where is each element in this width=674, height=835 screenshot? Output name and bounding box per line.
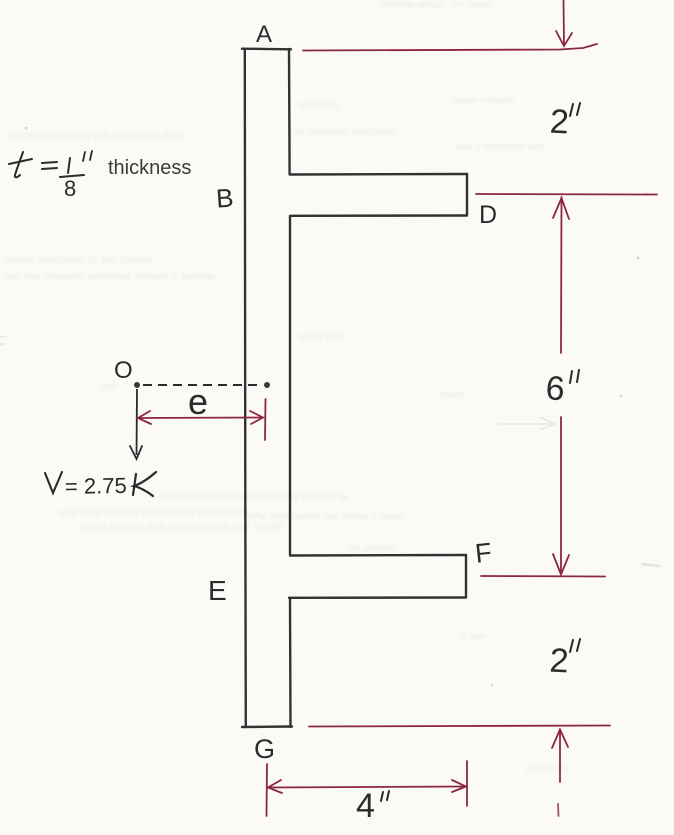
V force arrow line	[136, 389, 139, 455]
svg-text:mwnm wmmunm m wm mmnw: mwnm wmmunm m wm mmnw	[2, 254, 153, 266]
V force arrowhead	[130, 446, 142, 459]
svg-text:mm mw umwmm wmmmw mmnm n wmmw: mm mw umwmm wmmmw mmnm n wmmw	[2, 271, 215, 283]
top flange bottom edge	[291, 214, 467, 217]
e dimension line	[137, 417, 263, 420]
svg-text:.: .	[255, 499, 258, 511]
faint scan artifacts	[0, 127, 660, 687]
svg-text:4: 4	[356, 787, 375, 825]
V = 2.75 K handwriting	[45, 472, 62, 493]
4in dimension line	[268, 787, 467, 788]
svg-text:e: e	[188, 381, 208, 422]
dot on web	[264, 382, 270, 388]
svg-text:ww u wmmnm wm: ww u wmmnm wm	[454, 141, 545, 153]
svg-text:nww wm: nww wm	[300, 331, 342, 343]
top 2in arrow vertical	[563, 0, 566, 45]
bottom flange right edge	[465, 555, 467, 597]
red dimension set	[137, 0, 657, 816]
6in upper arrowhead	[553, 198, 569, 219]
D level extension line	[476, 193, 657, 196]
svg-text:A: A	[256, 21, 272, 48]
top extension line at y=49	[303, 44, 597, 51]
svg-text:F: F	[474, 537, 494, 569]
e right tick	[264, 399, 267, 440]
web right edge middle	[289, 216, 291, 555]
e right arrowhead	[250, 411, 263, 424]
svg-text:m mn mwwmmm mw mmwa wmmw w: m mn mwwmmm mw mmwa wmmw w	[160, 491, 347, 503]
bleed-through faint text texture	[2, 0, 569, 775]
web top edge A	[242, 48, 291, 51]
bottom flange top edge	[290, 554, 466, 557]
svg-text:m wmnm: m wmnm	[350, 543, 395, 555]
e left arrowhead	[138, 411, 151, 424]
top flange right edge	[466, 174, 468, 215]
svg-text:nmw mmnwmm wn mmw n wmm: nmw mmnwmm wn mmw n wmm	[244, 511, 406, 523]
fraction 1/8	[60, 158, 84, 177]
dashed line O to web	[143, 384, 262, 386]
svg-text:G: G	[254, 734, 275, 764]
6in lower arrowhead	[553, 554, 569, 575]
equals sign	[42, 162, 57, 169]
shear centre O construction	[45, 382, 270, 499]
svg-text:thickness: thickness	[108, 157, 191, 179]
handwritten t	[9, 152, 32, 177]
svg-text:E: E	[208, 575, 227, 606]
4in right arrowhead	[452, 780, 466, 792]
dot at O	[134, 382, 140, 388]
4in right tick	[466, 761, 468, 806]
4in left tick	[266, 764, 269, 816]
svg-text:mmnw wman rm mmw: mmnw wman rm mmw	[382, 0, 492, 11]
web right edge upper	[288, 49, 291, 174]
svg-text:2: 2	[549, 641, 570, 680]
section outline (black)	[242, 49, 467, 727]
point labels (black handwriting)	[114, 21, 497, 764]
svg-text:mwnmn: mwnmn	[300, 99, 339, 111]
6in arrow upper segment	[560, 197, 563, 353]
top flange top edge	[290, 173, 467, 176]
inch ditto marks	[83, 151, 92, 161]
svg-text:n wm: n wm	[460, 631, 486, 643]
svg-text:= 2.75: = 2.75	[65, 473, 127, 499]
svg-text:D: D	[479, 201, 497, 229]
svg-text:8: 8	[64, 176, 76, 201]
bottom flange bottom edge	[289, 596, 466, 599]
6in arrow lower segment	[560, 417, 562, 574]
svg-text:wmm mnwm: wmm mnwm	[451, 95, 514, 107]
svg-text:mw-nww: mw-nww	[526, 763, 569, 775]
svg-text:6: 6	[544, 369, 566, 408]
svg-text:2: 2	[549, 102, 570, 141]
bottom stray red mark	[557, 804, 560, 816]
svg-text:nwm: nwm	[440, 389, 463, 401]
web bottom edge	[242, 725, 292, 728]
svg-text:O: O	[114, 357, 133, 384]
svg-text:u wmwmmmnwa p A u mmnum m w: u wmwmmmnwa p A u mmnum m w	[8, 130, 183, 142]
dimension value labels (black handwriting)	[356, 102, 580, 825]
4in left arrowhead	[268, 780, 282, 793]
F level extension line	[481, 575, 605, 578]
svg-text:nw mmmwa wwmmw: nw mmmwa wwmmw	[290, 126, 394, 138]
svg-text:B: B	[215, 183, 234, 214]
web left edge	[245, 49, 246, 727]
bottom 2in arrowhead up	[552, 730, 568, 749]
svg-text:mw m w mmmw mmw-mwa mmnwmm u: mw m w mmmw mmw-mwa mmnwmm u	[60, 507, 258, 519]
top 2in arrowhead down	[556, 31, 572, 46]
web right edge lower	[289, 598, 292, 727]
t = 1/8" thickness annotation	[9, 151, 191, 201]
bottom extension line at y=727	[309, 726, 610, 727]
bottom 2in arrow vertical	[559, 730, 561, 782]
